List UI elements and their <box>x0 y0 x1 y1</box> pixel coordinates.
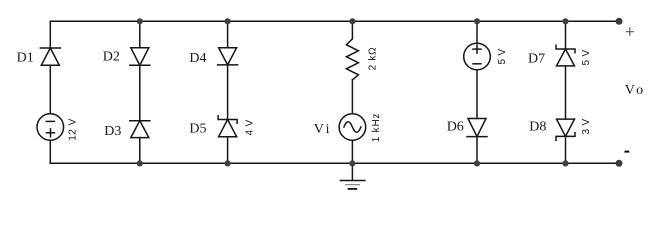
node bottom ground <box>349 160 355 166</box>
wire D2 to D3 <box>139 65 141 120</box>
node top R1 <box>349 18 355 24</box>
svg-text:D6: D6 <box>447 120 464 135</box>
svg-text:D8: D8 <box>529 120 546 135</box>
source V2 5V <box>464 43 491 70</box>
source V1 12V <box>37 114 64 141</box>
wire D5 to bottom rail <box>227 137 229 164</box>
diode D3 <box>130 121 150 138</box>
wire D1 to source V1 <box>49 65 51 113</box>
wire D3 to bottom rail <box>139 138 141 164</box>
terminal output + <box>616 18 623 25</box>
diode D2 <box>130 48 150 66</box>
wire D8 to bottom rail <box>565 136 567 163</box>
wire resistor branch top <box>351 21 353 39</box>
wire D1 branch top <box>49 21 51 48</box>
svg-text:1 kHz: 1 kHz <box>371 113 382 143</box>
svg-text:4 V: 4 V <box>245 120 256 136</box>
ground <box>340 163 365 189</box>
svg-text:12 V: 12 V <box>68 118 79 141</box>
source Vi sine <box>339 114 366 141</box>
wire source Vi to bottom rail <box>351 140 353 163</box>
svg-text:D7: D7 <box>528 52 545 67</box>
svg-text:5 V: 5 V <box>497 49 508 65</box>
wire D4 to D5 <box>227 65 229 120</box>
wire top rail <box>50 20 619 22</box>
zener diode D8 <box>556 119 575 140</box>
wire bottom rail <box>50 162 619 164</box>
svg-text:5 V: 5 V <box>581 50 592 66</box>
label output - <box>625 151 630 153</box>
terminal output - <box>616 160 623 167</box>
svg-text:D5: D5 <box>189 122 206 137</box>
label output + <box>626 27 634 35</box>
svg-text:Vo: Vo <box>625 83 646 98</box>
svg-text:3 V: 3 V <box>581 119 592 135</box>
wire D7 to D8 <box>565 66 567 119</box>
zener diode D7 <box>556 45 575 66</box>
diode D4 <box>218 48 238 65</box>
wire resistor to source Vi <box>351 80 353 114</box>
wire source V1 to bottom rail <box>49 140 51 163</box>
svg-text:D4: D4 <box>189 51 206 66</box>
diode D6 <box>467 119 487 137</box>
wire source V2 to D6 <box>476 70 478 119</box>
svg-text:D2: D2 <box>103 50 120 65</box>
node top D7 <box>562 18 568 24</box>
node top D4 <box>225 18 231 24</box>
node top D2 <box>137 18 143 24</box>
wire D2 branch top <box>139 21 141 47</box>
resistor R1 2kOhm <box>346 39 358 80</box>
diode D1 <box>40 48 60 65</box>
svg-text:D1: D1 <box>17 50 34 65</box>
node bottom D8 <box>562 160 568 166</box>
svg-text:D3: D3 <box>104 124 121 139</box>
wire D4 branch top <box>227 21 229 47</box>
wire source V2 branch top <box>476 21 478 43</box>
wire D7 branch top <box>565 21 567 49</box>
node bottom D3 <box>137 160 143 166</box>
wire D6 to bottom rail <box>476 137 478 164</box>
node bottom D6 <box>474 160 480 166</box>
node bottom D5 <box>225 160 231 166</box>
node top V2 <box>474 18 480 24</box>
zener diode D5 <box>218 116 237 137</box>
svg-text:Vi: Vi <box>314 122 332 137</box>
svg-text:2 kΩ: 2 kΩ <box>368 47 379 71</box>
